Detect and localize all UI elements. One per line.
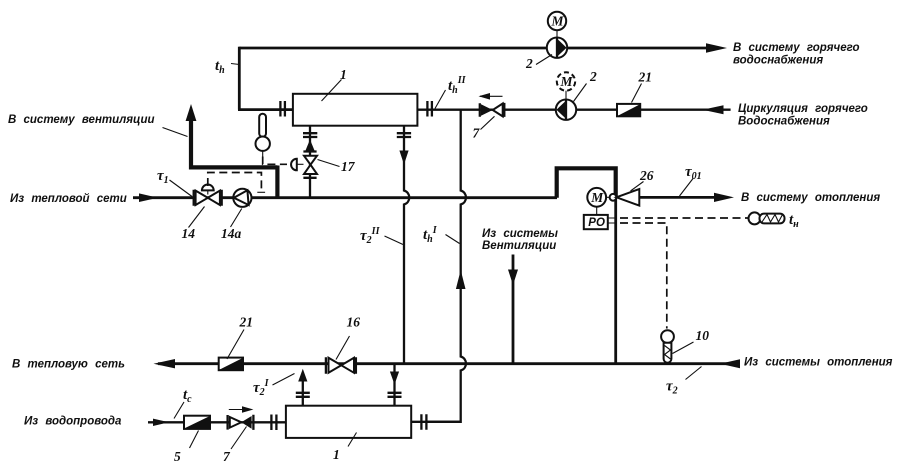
wire: from ventilation system drop x=513 [512, 255, 515, 364]
wire: heating supply out of elevator y=197.4 [639, 196, 720, 199]
arrow: flow right above check valve 7 cold [229, 409, 251, 411]
svg-text:M: M [590, 190, 604, 205]
wire: dashed impulse line thermometer to valve 17 actuator [263, 157, 287, 165]
svg-text:1: 1 [333, 447, 340, 462]
dirt trap 21 (return) [219, 358, 243, 371]
svg-text:Вентиляции: Вентиляции [482, 240, 556, 252]
svg-text:26: 26 [639, 168, 654, 183]
wire: PO outputs to pipe [608, 218, 617, 223]
svg-text:thI: thI [423, 225, 438, 245]
actuator of valve 17 (semicircle) [291, 159, 297, 171]
arrow: DHW supply to system (right) [706, 43, 727, 53]
svg-text:В систему отопления: В систему отопления [741, 192, 880, 204]
gate valve 16 [326, 357, 356, 374]
svg-text:14а: 14а [221, 226, 242, 241]
arrow: vent supply up [186, 104, 197, 121]
flange HX1 bottom left port [303, 133, 317, 137]
wire: HX1 drain branch x=404 with hop over supply line [404, 126, 409, 364]
wire: M to PO stem [596, 207, 598, 215]
pipe: elevator riser down to return line [614, 190, 617, 364]
svg-text:21: 21 [239, 315, 254, 330]
svg-text:7: 7 [473, 126, 481, 141]
wire: cold water line from HX2 right port to riser corner [411, 421, 460, 423]
svg-text:τ2: τ2 [666, 379, 678, 397]
svg-text:водоснабжения: водоснабжения [733, 55, 823, 67]
svg-text:thII: thII [448, 75, 467, 96]
valve 17 (vertical bowtie) [303, 152, 316, 178]
arrow: down stub into HX2 [390, 372, 399, 385]
regulator box PO [584, 215, 608, 229]
svg-text:10: 10 [696, 328, 710, 343]
heat exchanger 1 (lower) body [286, 406, 411, 438]
flange HX1 left [280, 101, 285, 117]
wire: dashed to outdoor sensor t_n [620, 217, 748, 219]
svg-text:M: M [560, 74, 574, 89]
motor M of regulator [587, 188, 606, 207]
svg-text:7: 7 [223, 449, 231, 464]
flange HX1 right [427, 101, 432, 117]
arrow: to heat network (left) [154, 359, 176, 368]
wire: valve 17 branch x=310 from HX1 bottom to supply line [309, 126, 311, 198]
arrow: circulation inflow (left) [703, 105, 724, 114]
flange HX2 top-right port [388, 393, 402, 397]
svg-text:Из тепловой сети: Из тепловой сети [10, 193, 127, 205]
motor M dashed of pump 2 (circulation) [557, 72, 575, 90]
arrow: up on t_h^I riser [456, 270, 466, 289]
arrow: cold water inlet (right) [153, 419, 169, 426]
dirt trap 21 (circulation) [617, 104, 640, 116]
wire: heat network supply line y=197.7 [133, 196, 557, 199]
svg-text:Из системы отопления: Из системы отопления [744, 357, 893, 369]
svg-text:tн: tн [789, 212, 799, 230]
control valve 14 body [194, 190, 222, 206]
elevator 26 (nozzle) [616, 189, 639, 206]
svg-text:τ1: τ1 [157, 168, 169, 186]
svg-text:РО: РО [588, 217, 605, 229]
arrow: flow left above check valve 7 [480, 95, 503, 97]
arrow: heat network inlet (right) [139, 193, 158, 202]
flange HX2 top-left port [296, 393, 310, 397]
wire: M to node [606, 196, 610, 198]
flange HX2 right [421, 414, 426, 430]
svg-text:В систему вентиляции: В систему вентиляции [8, 114, 155, 126]
svg-text:17: 17 [341, 159, 356, 174]
svg-text:16: 16 [347, 315, 361, 330]
wire: stem motor-pump [556, 30, 558, 37]
arrow: down on vent return [508, 270, 518, 286]
sensor tap T-bar [257, 191, 265, 193]
node: small circle on elevator inlet [610, 194, 617, 201]
arrow: up into HX1 on valve 17 branch [306, 140, 315, 151]
wire: dashed to return sensor 10 [620, 223, 667, 329]
pipe: vent supply riser (thick) with corner [191, 112, 277, 167]
pump 2 (circulation) body [556, 100, 576, 120]
flange HX2 left [271, 415, 276, 431]
pipe: thick drop from vent corner to supply line [275, 166, 279, 198]
wire: return line y=363.7 (В тепловую сеть / Из системы отопления) [158, 362, 732, 365]
svg-text:τ01: τ01 [685, 164, 702, 182]
svg-text:Из системы: Из системы [482, 228, 558, 240]
arrow: up tau2^I stub [298, 369, 307, 382]
svg-text:M: M [551, 14, 565, 29]
pump/elevator 14a body [233, 189, 251, 207]
svg-text:τ2I: τ2I [253, 378, 270, 398]
flange HX1 bottom right port [397, 133, 411, 137]
svg-text:τ2II: τ2II [360, 226, 381, 246]
wire: dashed impulse line valve 14 dome to pipe sensor [208, 173, 262, 190]
wire: drain stub into HX2 right top port x=394.5 [393, 364, 395, 406]
wire: stem motor-pump circ [565, 91, 567, 100]
svg-text:14: 14 [182, 226, 196, 241]
arrow: to heating system (right) [714, 193, 734, 202]
sensor 10 (return water temperature) [661, 330, 674, 343]
sensor t_n (outdoor) [749, 212, 761, 224]
pump 2 (DHW) body [547, 38, 567, 58]
svg-text:Циркуляция горячего: Циркуляция горячего [738, 103, 868, 115]
svg-text:21: 21 [638, 70, 653, 85]
wire: left riser from t_h line down to HX1 left port [238, 47, 241, 110]
wire: tau2^I stub up from HX2 left port [302, 381, 304, 406]
svg-text:th: th [215, 58, 225, 76]
arrow: from heating system (left) [720, 359, 740, 368]
svg-text:Водоснабжения: Водоснабжения [738, 116, 830, 128]
svg-text:В систему горячего: В систему горячего [733, 42, 860, 54]
wire: circulation line y=109.7 from HX1 right port to right edge arrow [417, 109, 730, 111]
check valve 7 (cold water) [228, 415, 254, 430]
thermometer (temperature regulator bulb) [259, 114, 266, 137]
check valve 7 (circulation) [480, 103, 505, 117]
wire: t_h^I riser x=460.7 with hops over supply and return lines [427, 110, 466, 422]
motor M of pump 2 (DHW) [548, 12, 566, 30]
svg-text:2: 2 [525, 56, 533, 71]
wire: HX1 left port horizontal [238, 108, 293, 111]
svg-text:Из водопровода: Из водопровода [24, 416, 122, 428]
wire: DHW supply line t_h (top horizontal y=48) [239, 47, 712, 50]
wire: cold water line y=422.3 left part [148, 421, 286, 423]
svg-text:2: 2 [589, 69, 597, 84]
actuator dome of valve 14 [202, 185, 214, 191]
svg-text:5: 5 [174, 449, 181, 464]
svg-text:В тепловую сеть: В тепловую сеть [12, 359, 125, 371]
heat exchanger 1 (upper) body [293, 94, 418, 126]
arrow: down HX1 drain [399, 151, 408, 165]
dirt trap 5 [184, 416, 210, 429]
pipe: thick over-bridge corner to elevator (x=556.7 up, across, x=615.7 down) [557, 168, 616, 197]
